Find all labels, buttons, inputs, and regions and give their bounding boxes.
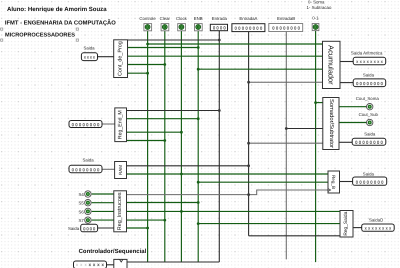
wire Controlador to Entrada net bottom (127, 261, 219, 263)
svg-text:S6: S6 (79, 209, 85, 214)
subcircuit Reg_End_M (115, 108, 127, 142)
svg-text:Cout_Soma: Cout_Soma (356, 96, 380, 101)
wire Reg_Instrucoes S7 row to Clear net (127, 219, 165, 221)
wire Reg_End_M out2 to ENB net (127, 118, 199, 120)
svg-text:RAM: RAM (118, 165, 123, 175)
junction ENB-Acum3 (197, 68, 200, 71)
subcircuit Somador/Subtrator (323, 98, 339, 150)
subcircuit Reg_Instrucoes (114, 191, 127, 232)
wire Reg_Saida out to SaidaD pin (353, 227, 362, 229)
subcircuit Reg_Saida (340, 211, 353, 238)
wire EntradaA corner to Reg_Saida in3 (249, 235, 340, 237)
subcircuit Cont_de_Prog (114, 40, 128, 78)
output pin S7 (79, 217, 92, 223)
wire Somador out1 to Cout_Soma (339, 106, 366, 108)
wire Reg_End_M out1 to Entrada net (127, 110, 220, 112)
wire S4 pin to Reg_Instrucoes (92, 193, 114, 195)
wire EntradaA net to Acumulador in4 (249, 81, 323, 83)
junction Controle-Acum1 (146, 43, 149, 46)
wire Clock vertical (180, 31, 182, 263)
wire Cont_de_Prog out5 to Controle net (128, 72, 148, 74)
input pin EntradaA 8bit (232, 16, 265, 32)
wire S5 pin to Reg_Instrucoes (92, 202, 114, 204)
output pin Cout_Sub (359, 112, 379, 126)
wire EntradaA vertical (248, 32, 250, 236)
junction Clock-regendm (180, 131, 183, 134)
svg-text:Saida: Saida (83, 46, 95, 51)
output pin Cout_Soma (356, 96, 380, 110)
svg-text:Reg_Saida: Reg_Saida (343, 211, 349, 235)
selection handle bottom-left (1, 39, 3, 41)
svg-text:S5: S5 (79, 201, 85, 206)
svg-text:MICROPROCESSADORES: MICROPROCESSADORES (5, 32, 75, 38)
output pin Saida somador (352, 132, 386, 146)
svg-text:Saida: Saida (364, 132, 376, 137)
svg-text:Reg_End_M: Reg_End_M (118, 110, 124, 139)
wire RAM out2 to Reg_B in1 (127, 173, 329, 175)
input pin Controle (139, 16, 156, 31)
junction ENB-regb (197, 181, 200, 184)
svg-text:Reg_B: Reg_B (331, 175, 336, 189)
subcircuit Controlador/Sequencial box (114, 259, 127, 268)
wire Reg_Instrucoes S6 row to Reg_Saida in1 (127, 210, 341, 212)
subcircuit RAM (115, 162, 127, 179)
svg-text:EntradaB: EntradaB (277, 16, 295, 21)
output pin Saida Aritmetica (351, 51, 386, 65)
svg-text:Reg_Instrucoes: Reg_Instrucoes (117, 192, 123, 230)
wire S7 pin to Reg_Instrucoes (92, 219, 114, 221)
junction ENB-S5 (197, 201, 200, 204)
wire Acumulador out1 to Saida Aritmetica (340, 61, 353, 63)
output pin Saida 8bit to RAM (69, 157, 102, 172)
selection handle top-right (76, 28, 78, 30)
wire Cont_de_Prog out4 to Clear net (128, 64, 165, 66)
wire ENB vertical (197, 31, 199, 263)
input pin EntradaB 8bit (269, 16, 303, 32)
svg-text:Entrada: Entrada (212, 16, 228, 21)
wire S6 pin to Reg_Instrucoes (92, 210, 114, 212)
wire EntradaB net to Somador in2 (286, 128, 323, 130)
wire Controle vertical (147, 31, 149, 263)
output pin Saida reg_b (353, 171, 387, 185)
svg-text:Cout_Sub: Cout_Sub (359, 112, 379, 117)
svg-text:Saida: Saida (83, 157, 95, 162)
svg-text:S4: S4 (79, 192, 85, 197)
junction Entrada-out1 (218, 39, 221, 42)
svg-text:Cont_de_Prog: Cont_de_Prog (118, 41, 124, 76)
wire Cont_de_Prog out1 to Entrada net (128, 39, 220, 41)
svg-text:Somador/Subtrator: Somador/Subtrator (328, 99, 335, 148)
junction ENB-regsaida (197, 222, 200, 225)
svg-text:SaidaD: SaidaD (369, 217, 383, 222)
junction EntradaA-ram (247, 164, 250, 167)
junction Controle-instr (146, 227, 149, 230)
wire Reg_Instrucoes bottom row to Controle net (127, 227, 148, 229)
selection handle bottom-right (76, 39, 78, 41)
junction Clear-out4 (163, 63, 166, 66)
svg-text:Aluno: Henrique de Amorim Souz: Aluno: Henrique de Amorim Souza (7, 6, 107, 13)
input pin ENB (194, 16, 203, 31)
subcircuit Reg_B (328, 171, 340, 193)
wire 0-1 vertical (315, 31, 317, 263)
output pin S5 (79, 200, 92, 206)
junction Entrada-regendm (218, 109, 221, 112)
svg-text:1- Subtracao: 1- Subtracao (307, 5, 332, 10)
wire Controle net to Acumulador in1 (148, 43, 323, 45)
output pin Saida acumulador (353, 73, 386, 87)
wire pin to Controlador input (107, 264, 114, 266)
wire EntradaA net to Somador in3 (249, 142, 323, 144)
output pin Saida 4bit bottom-left (68, 224, 98, 232)
svg-text:Saida: Saida (363, 171, 375, 176)
output pin Saida 4bit top-left (81, 46, 97, 61)
wire Clear vertical (164, 31, 166, 263)
svg-text:Saida: Saida (363, 73, 375, 78)
wire Saida pin to RAM (102, 168, 115, 170)
wire ENB net to Acumulador in3 (198, 68, 322, 70)
svg-text:ENB: ENB (194, 16, 203, 21)
svg-text:Controlador/Sequencial: Controlador/Sequencial (79, 248, 147, 255)
input pin Clear (160, 16, 171, 31)
junction EntradaA-jog (247, 193, 250, 196)
junction ENB-out2 (197, 46, 200, 49)
wire Cont_de_Prog out3 to Acumulador in2 (128, 55, 323, 57)
wire ENB net to Reg_Saida in2 (198, 223, 340, 225)
junction Clock-ram (180, 173, 183, 176)
subcircuit Acumulador (323, 41, 341, 88)
svg-text:0-1: 0-1 (312, 16, 319, 21)
junction EntradaA-somador (247, 142, 250, 145)
wire Reg_B out to Saida pin (340, 181, 353, 183)
output pin S4 (79, 191, 92, 197)
wire Somador out2 to Cout_Sub (339, 122, 366, 124)
junction EntradaA-Acum4 (247, 81, 250, 84)
wire Reg_End_M out4 to Clear net (127, 140, 165, 142)
wire Entrada vertical (218, 31, 220, 262)
svg-text:Acumulador: Acumulador (327, 45, 336, 85)
svg-text:Saida Aritmetica: Saida Aritmetica (351, 51, 383, 56)
wire Reg_Instrucoes S4 row with jog to Reg_B clock (127, 190, 329, 195)
svg-text:Clock: Clock (176, 16, 188, 21)
selection handle top-left (1, 28, 3, 30)
input pin Entrada 4bit (210, 16, 227, 31)
output pin S6 (79, 208, 92, 214)
input pin 0-1 (312, 16, 319, 31)
junction Clear-S7 (163, 219, 166, 222)
junction Clock-S6 (180, 210, 183, 213)
input pin Clock (176, 16, 188, 31)
wire EntradaB vertical (285, 32, 287, 260)
wire 0-1 net to Somador in1 (316, 102, 323, 104)
wire Somador out3 to Saida (339, 141, 352, 143)
wire input pin to Reg_End_M (102, 123, 115, 125)
output pin SaidaD (362, 217, 395, 231)
svg-text:IFMT - ENGENHARIA DA COMPUTAÇÃ: IFMT - ENGENHARIA DA COMPUTAÇÃO (5, 18, 116, 26)
junction EntradaB-somador (285, 127, 288, 130)
wire Saida pin to Cont_de_Prog input (98, 56, 114, 58)
wire Saida 4bit pin to Reg_Instrucoes (98, 227, 114, 229)
junction 0-1-somador (314, 101, 317, 104)
wire Acumulador out2 to Saida (340, 82, 353, 84)
svg-text:S7: S7 (79, 218, 85, 223)
input pin 8bit to Reg_End_M (69, 121, 102, 128)
svg-text:Clear: Clear (160, 16, 171, 21)
wire ENB net to Reg_B in2 (198, 181, 328, 183)
wire Reg_Instrucoes S5 row to ENB net (127, 202, 199, 204)
wire RAM out1 to EntradaA net (127, 165, 249, 167)
wire Reg_End_M out3 to Clock net (127, 131, 182, 133)
junction ENB-regendm (197, 117, 200, 120)
svg-text:Saida: Saida (68, 226, 80, 231)
junction Clear-regendm (163, 139, 166, 142)
svg-text:EntradaA: EntradaA (239, 16, 257, 21)
output pin x Controlador (74, 261, 107, 268)
wire Cont_de_Prog out2 to ENB net (128, 47, 199, 49)
svg-text:Controle: Controle (139, 16, 156, 21)
junction Controle-out5 (146, 72, 149, 75)
